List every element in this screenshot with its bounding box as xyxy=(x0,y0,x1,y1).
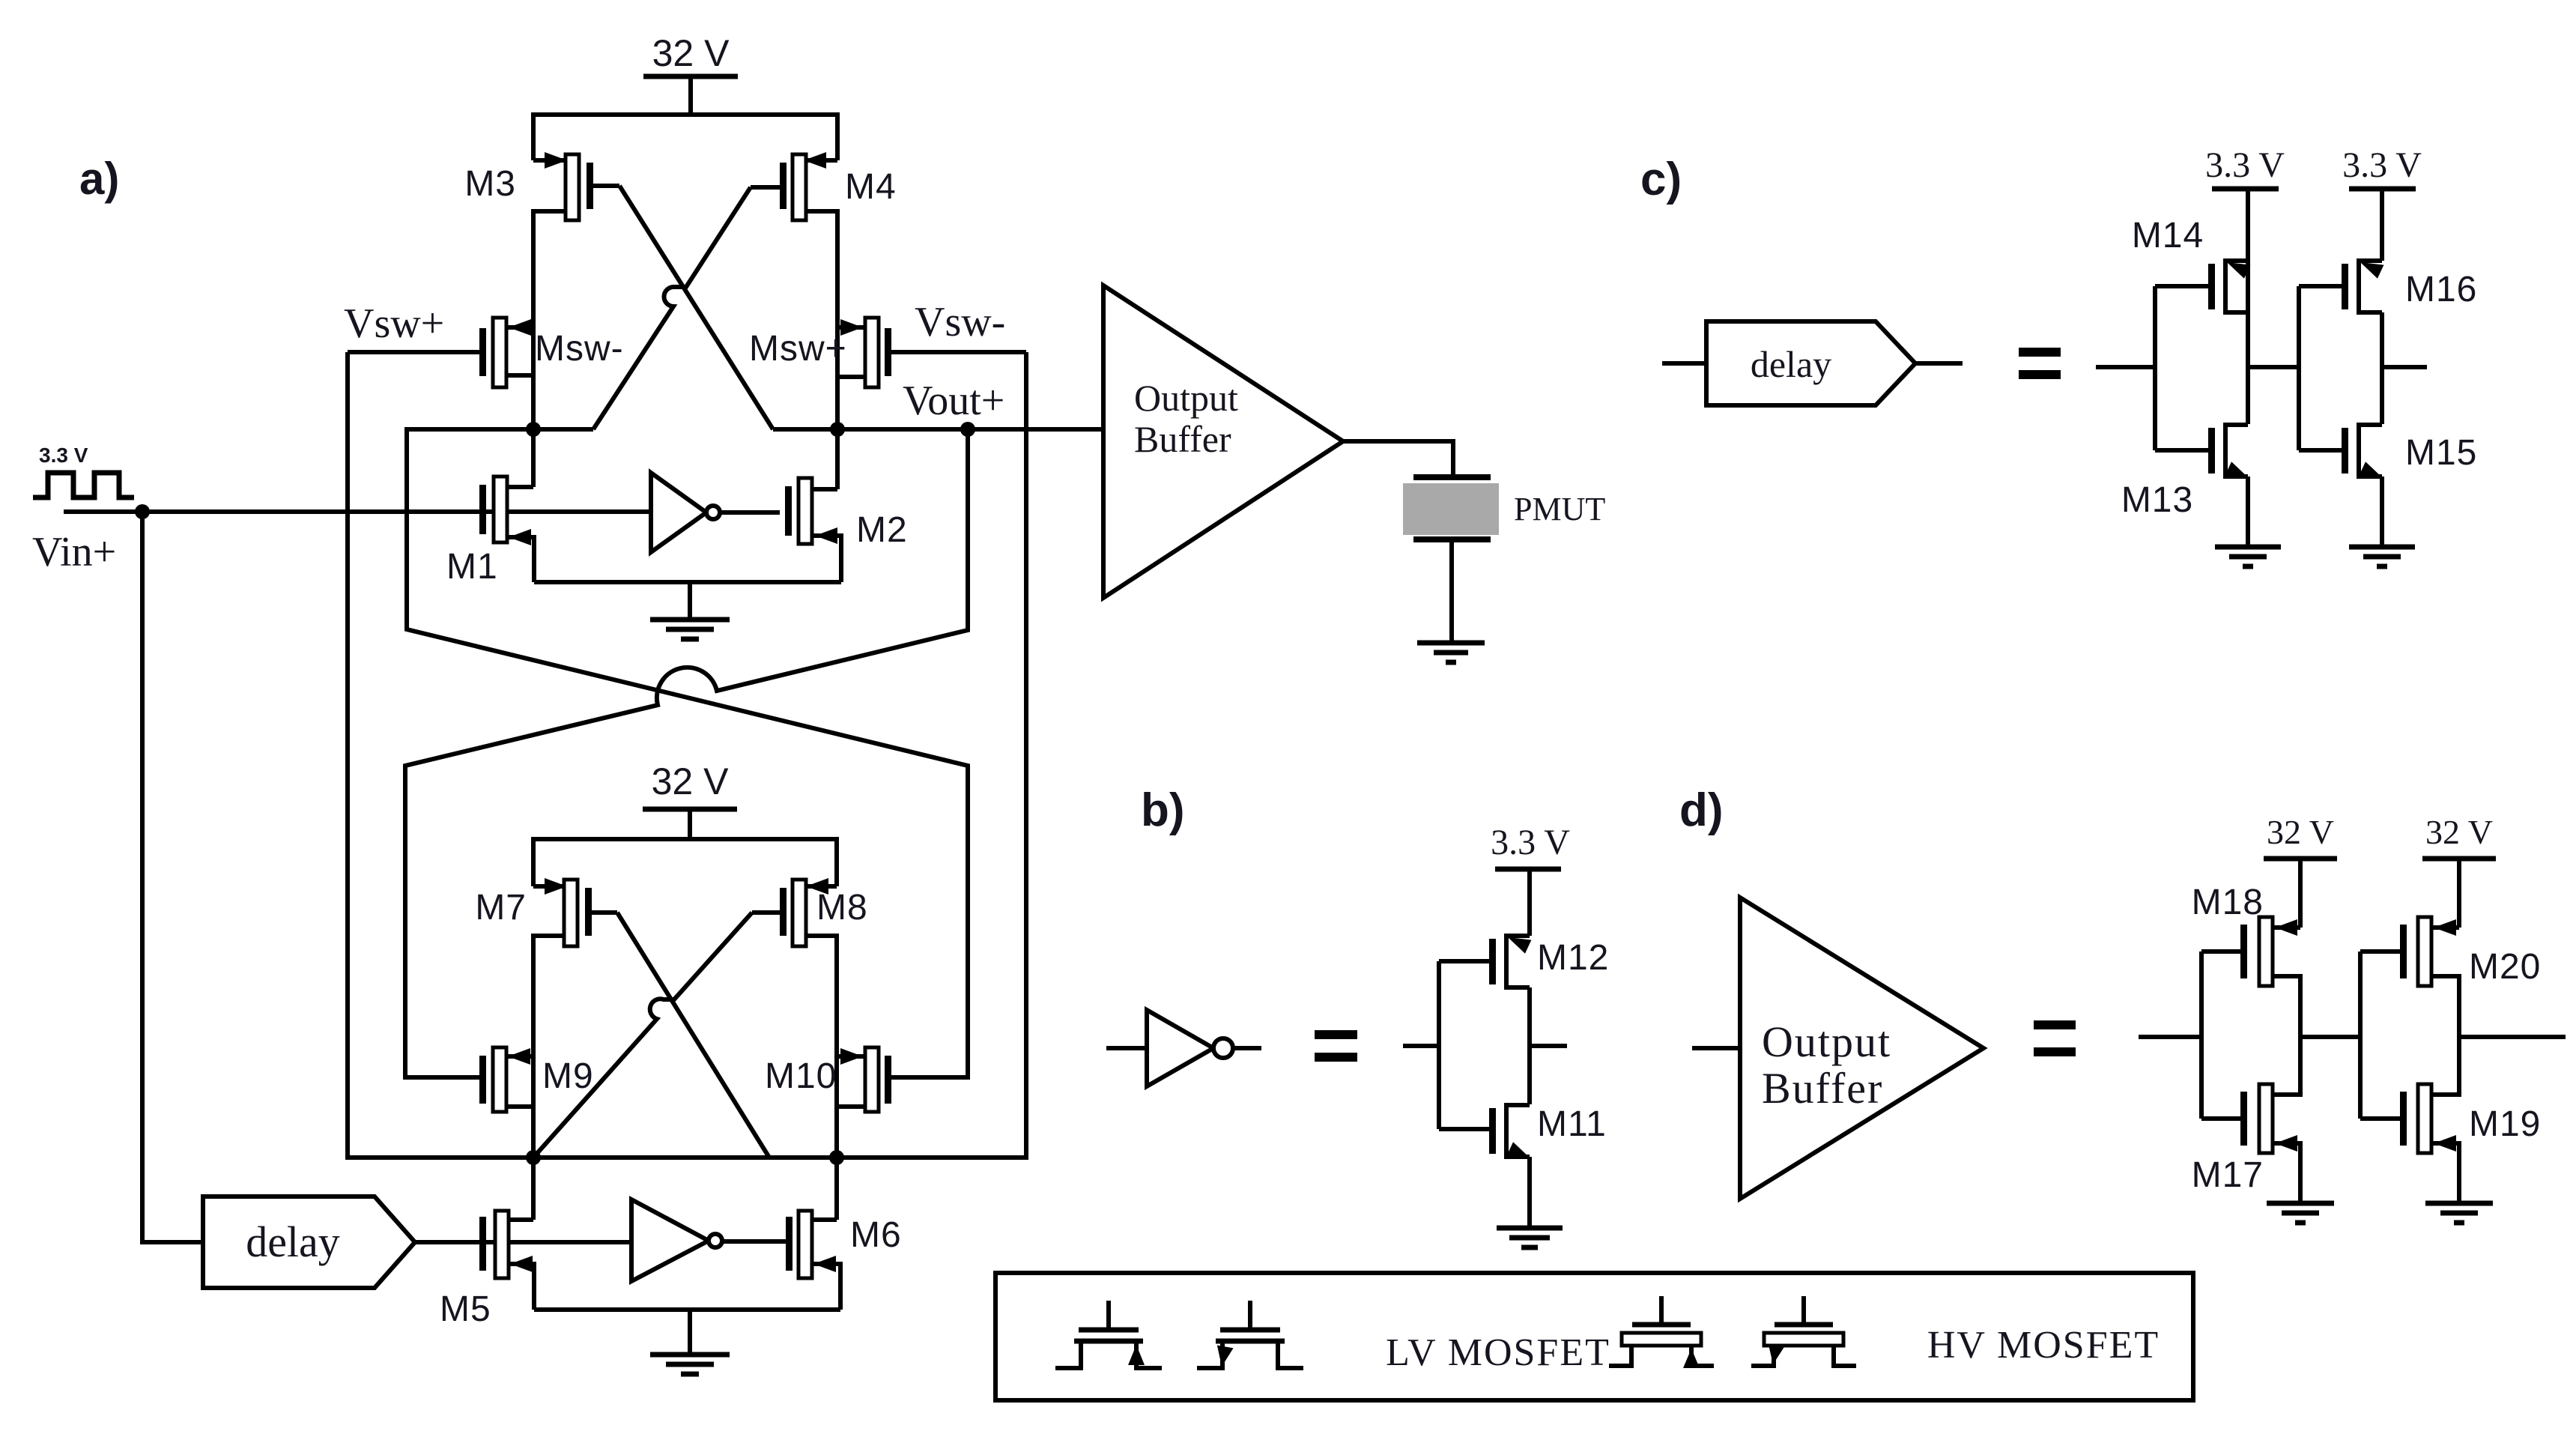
svg-text:3.3 V: 3.3 V xyxy=(2342,145,2422,185)
svg-text:Vsw+: Vsw+ xyxy=(344,300,444,347)
svg-text:delay: delay xyxy=(246,1217,340,1266)
svg-text:M10: M10 xyxy=(765,1056,837,1096)
svg-text:32 V: 32 V xyxy=(652,32,730,74)
svg-text:M16: M16 xyxy=(2405,270,2477,309)
svg-text:32 V: 32 V xyxy=(652,760,730,802)
svg-text:M3: M3 xyxy=(464,164,516,204)
svg-text:Output: Output xyxy=(1762,1017,1891,1066)
svg-text:3.3 V: 3.3 V xyxy=(2205,145,2285,185)
svg-text:M11: M11 xyxy=(1537,1104,1607,1144)
svg-text:3.3 V: 3.3 V xyxy=(1491,823,1570,862)
svg-text:3.3 V: 3.3 V xyxy=(39,444,88,467)
svg-text:Vout+: Vout+ xyxy=(903,378,1004,424)
svg-text:Buffer: Buffer xyxy=(1134,418,1231,460)
svg-text:M17: M17 xyxy=(2192,1155,2264,1195)
svg-text:32 V: 32 V xyxy=(2425,813,2493,851)
svg-text:M13: M13 xyxy=(2121,480,2193,520)
svg-text:M14: M14 xyxy=(2132,216,2204,255)
svg-text:M9: M9 xyxy=(542,1056,594,1096)
svg-text:M6: M6 xyxy=(850,1215,902,1255)
svg-text:Output: Output xyxy=(1134,377,1238,419)
svg-text:M8: M8 xyxy=(816,888,868,928)
svg-text:M20: M20 xyxy=(2469,947,2541,987)
svg-text:PMUT: PMUT xyxy=(1514,491,1605,527)
svg-text:M2: M2 xyxy=(856,510,908,550)
svg-text:Vsw-: Vsw- xyxy=(915,299,1005,345)
svg-text:HV MOSFET: HV MOSFET xyxy=(1927,1324,2160,1367)
svg-text:M19: M19 xyxy=(2469,1104,2541,1144)
svg-text:d): d) xyxy=(1679,784,1724,836)
svg-text:32 V: 32 V xyxy=(2267,813,2334,851)
svg-text:a): a) xyxy=(79,154,119,204)
svg-text:LV MOSFET: LV MOSFET xyxy=(1386,1331,1610,1374)
svg-text:Msw+: Msw+ xyxy=(749,329,847,369)
svg-text:c): c) xyxy=(1640,154,1682,205)
svg-text:Vin+: Vin+ xyxy=(32,529,116,575)
svg-text:M15: M15 xyxy=(2405,433,2477,473)
svg-text:M7: M7 xyxy=(475,888,527,928)
svg-text:M18: M18 xyxy=(2192,883,2264,922)
svg-text:Buffer: Buffer xyxy=(1762,1064,1883,1113)
svg-text:M4: M4 xyxy=(845,167,897,207)
svg-text:M5: M5 xyxy=(440,1289,491,1329)
svg-text:b): b) xyxy=(1141,784,1185,836)
svg-text:delay: delay xyxy=(1751,343,1831,385)
svg-text:M1: M1 xyxy=(446,547,498,587)
svg-text:Msw-: Msw- xyxy=(535,329,624,369)
svg-text:M12: M12 xyxy=(1537,938,1609,978)
